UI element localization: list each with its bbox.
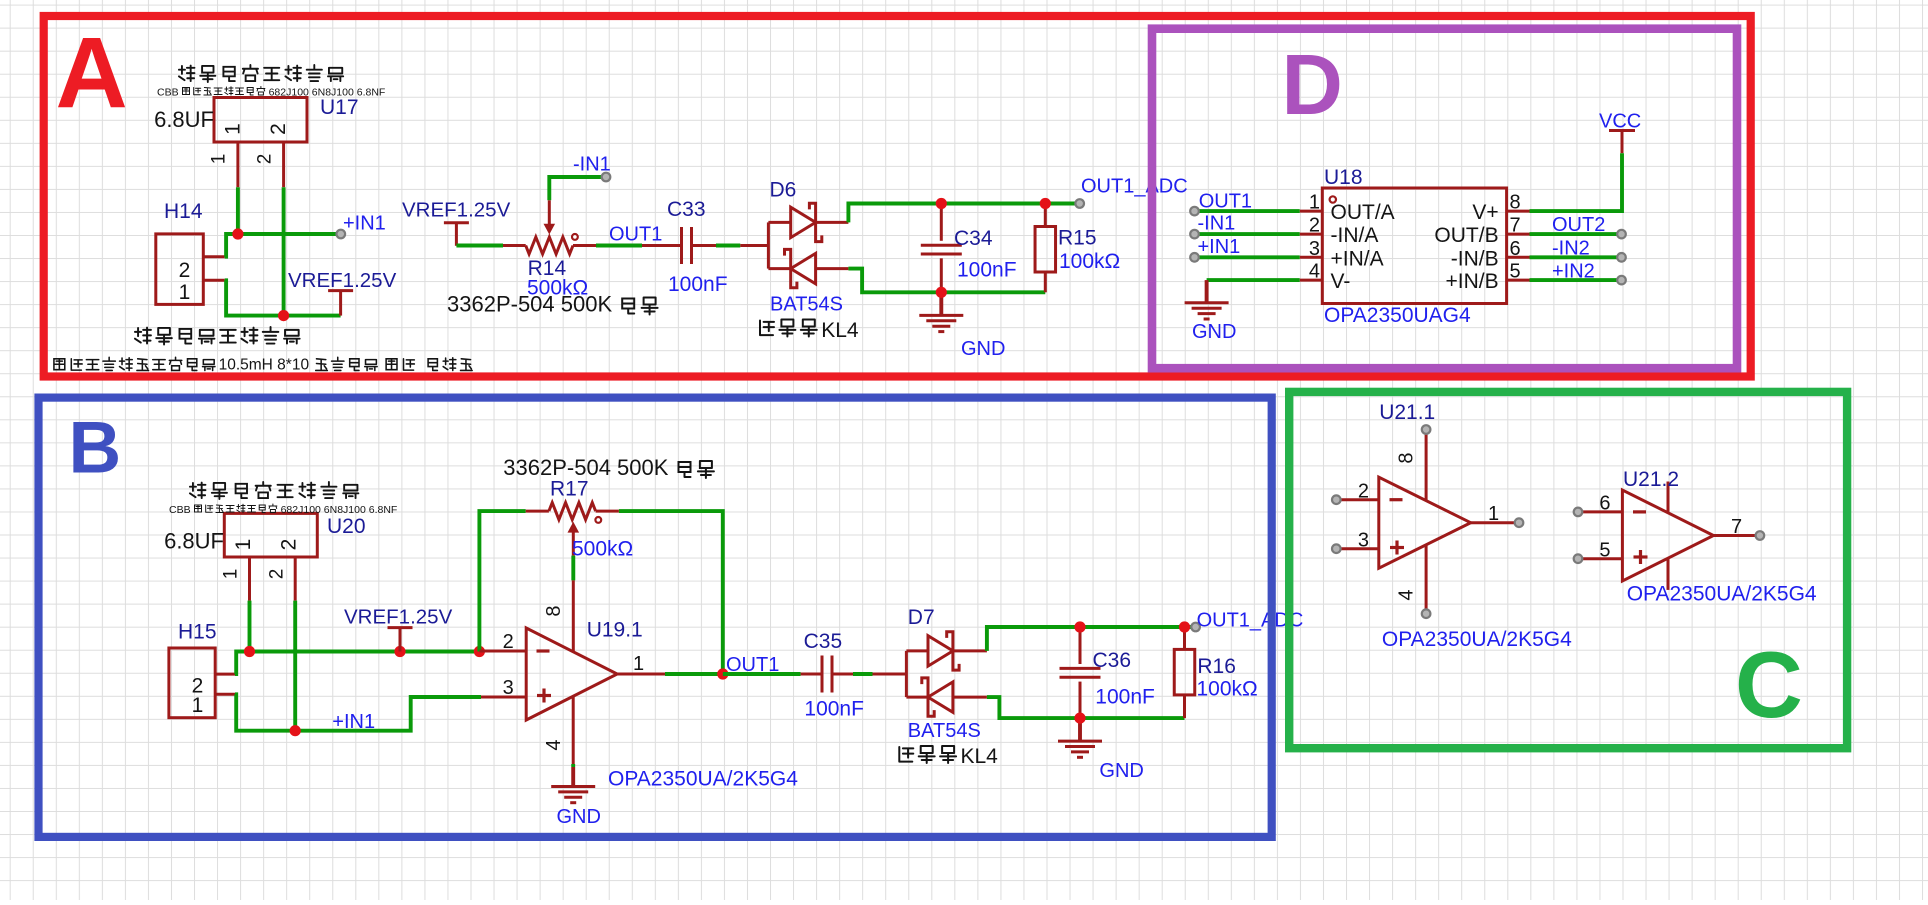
svg-text:C36: C36 <box>1093 649 1132 672</box>
svg-text:C34: C34 <box>954 227 993 250</box>
svg-text:100kΩ: 100kΩ <box>1059 250 1120 273</box>
svg-text:-IN1: -IN1 <box>573 154 611 176</box>
svg-text:OUT/B: OUT/B <box>1434 224 1498 247</box>
svg-text:8: 8 <box>1510 192 1521 214</box>
svg-text:VREF1.25V: VREF1.25V <box>402 199 511 222</box>
svg-text:6.8UF: 6.8UF <box>154 107 214 132</box>
svg-text:+IN/B: +IN/B <box>1445 270 1498 293</box>
svg-text:100nF: 100nF <box>957 259 1017 282</box>
svg-text:1: 1 <box>1488 503 1499 525</box>
svg-text:VREF1.25V: VREF1.25V <box>288 269 397 292</box>
svg-text:500kΩ: 500kΩ <box>572 538 633 561</box>
svg-text:4: 4 <box>1396 589 1418 600</box>
svg-text:+IN1: +IN1 <box>343 213 386 235</box>
svg-text:2: 2 <box>267 569 288 580</box>
svg-text:+IN1: +IN1 <box>332 711 375 733</box>
svg-text:R16: R16 <box>1197 655 1236 678</box>
svg-text:OPA2350UAG4: OPA2350UAG4 <box>1324 304 1471 327</box>
svg-text:1: 1 <box>1309 192 1320 214</box>
svg-text:GND: GND <box>961 338 1005 360</box>
svg-text:R15: R15 <box>1058 227 1097 250</box>
svg-text:U21.2: U21.2 <box>1623 468 1679 491</box>
svg-text:B: B <box>69 408 122 489</box>
svg-text:C: C <box>1735 632 1803 737</box>
svg-text:682J100 6N8J100 6.8NF: 682J100 6N8J100 6.8NF <box>269 87 386 99</box>
svg-text:3362P-504 500K: 3362P-504 500K <box>503 455 668 480</box>
svg-text:KL4: KL4 <box>821 319 859 342</box>
svg-text:V+: V+ <box>1472 201 1498 224</box>
svg-text:GND: GND <box>1192 321 1236 343</box>
svg-text:D6: D6 <box>770 179 797 202</box>
svg-text:2: 2 <box>255 154 276 165</box>
svg-text:2: 2 <box>278 539 301 551</box>
svg-text:1: 1 <box>192 694 204 717</box>
svg-text:1: 1 <box>232 539 255 551</box>
svg-text:U21.1: U21.1 <box>1379 401 1435 424</box>
svg-text:6.8UF: 6.8UF <box>164 529 224 554</box>
svg-text:100nF: 100nF <box>668 273 728 296</box>
svg-text:OUT1: OUT1 <box>1199 191 1252 213</box>
svg-text:U18: U18 <box>1324 166 1363 189</box>
svg-text:VREF1.25V: VREF1.25V <box>344 606 453 629</box>
svg-text:100nF: 100nF <box>1095 686 1155 709</box>
svg-text:8: 8 <box>543 605 565 616</box>
svg-text:5: 5 <box>1510 261 1521 283</box>
svg-text:D: D <box>1282 38 1343 133</box>
svg-text:OUT1: OUT1 <box>609 224 662 246</box>
svg-text:OUT2: OUT2 <box>1552 214 1605 236</box>
svg-text:-IN/A: -IN/A <box>1331 224 1379 247</box>
svg-text:2: 2 <box>503 631 514 653</box>
svg-text:U17: U17 <box>320 96 359 119</box>
svg-text:1: 1 <box>221 569 242 580</box>
svg-text:GND: GND <box>1099 760 1143 782</box>
svg-text:1: 1 <box>222 123 245 135</box>
svg-text:-IN/B: -IN/B <box>1451 247 1499 270</box>
svg-text:OUT/A: OUT/A <box>1331 201 1395 224</box>
svg-text:OPA2350UA/2K5G4: OPA2350UA/2K5G4 <box>1382 628 1572 651</box>
svg-text:BAT54S: BAT54S <box>908 720 981 742</box>
svg-text:U19.1: U19.1 <box>587 619 643 642</box>
svg-text:5: 5 <box>1599 540 1610 562</box>
svg-text:R17: R17 <box>550 478 589 501</box>
svg-text:6: 6 <box>1510 238 1521 260</box>
svg-text:OPA2350UA/2K5G4: OPA2350UA/2K5G4 <box>608 768 798 791</box>
svg-text:1: 1 <box>209 154 230 165</box>
svg-text:3362P-504 500K: 3362P-504 500K <box>447 292 612 317</box>
svg-text:-IN2: -IN2 <box>1552 238 1590 260</box>
svg-text:4: 4 <box>1309 261 1320 283</box>
svg-text:8: 8 <box>1396 452 1418 463</box>
svg-text:2: 2 <box>179 259 191 282</box>
svg-text:1: 1 <box>633 653 644 675</box>
svg-text:+IN/A: +IN/A <box>1331 247 1384 270</box>
svg-text:4: 4 <box>543 739 565 750</box>
svg-text:100nF: 100nF <box>804 698 864 721</box>
svg-text:H14: H14 <box>164 200 203 223</box>
svg-text:6: 6 <box>1599 493 1610 515</box>
svg-text:C35: C35 <box>804 630 843 653</box>
svg-text:BAT54S: BAT54S <box>770 294 843 316</box>
svg-text:CBB: CBB <box>157 87 179 99</box>
svg-text:1: 1 <box>179 281 191 304</box>
svg-text:U20: U20 <box>327 515 366 538</box>
svg-text:-IN1: -IN1 <box>1198 213 1236 235</box>
svg-text:7: 7 <box>1731 516 1742 538</box>
svg-text:CBB: CBB <box>169 504 191 516</box>
svg-text:7: 7 <box>1510 215 1521 237</box>
svg-text:C33: C33 <box>667 198 706 221</box>
svg-text:2: 2 <box>1309 215 1320 237</box>
svg-text:OUT1_ADC: OUT1_ADC <box>1081 176 1188 198</box>
svg-text:100kΩ: 100kΩ <box>1197 678 1258 701</box>
svg-text:+IN1: +IN1 <box>1198 236 1241 258</box>
svg-text:2: 2 <box>267 123 290 135</box>
svg-text:2: 2 <box>1358 481 1369 503</box>
svg-text:KL4: KL4 <box>961 745 999 768</box>
svg-text:V-: V- <box>1331 270 1351 293</box>
svg-text:D7: D7 <box>908 606 935 629</box>
svg-text:OPA2350UA/2K5G4: OPA2350UA/2K5G4 <box>1627 583 1817 606</box>
svg-text:3: 3 <box>1309 238 1320 260</box>
svg-text:3: 3 <box>503 677 514 699</box>
svg-text:+IN2: +IN2 <box>1552 261 1595 283</box>
svg-text:GND: GND <box>557 806 601 828</box>
svg-text:3: 3 <box>1358 530 1369 552</box>
svg-text:A: A <box>56 17 128 129</box>
svg-text:10.5mH 8*10: 10.5mH 8*10 <box>219 357 310 374</box>
svg-text:H15: H15 <box>178 621 217 644</box>
svg-text:VCC: VCC <box>1599 111 1641 133</box>
svg-text:682J100 6N8J100 6.8NF: 682J100 6N8J100 6.8NF <box>281 504 398 516</box>
